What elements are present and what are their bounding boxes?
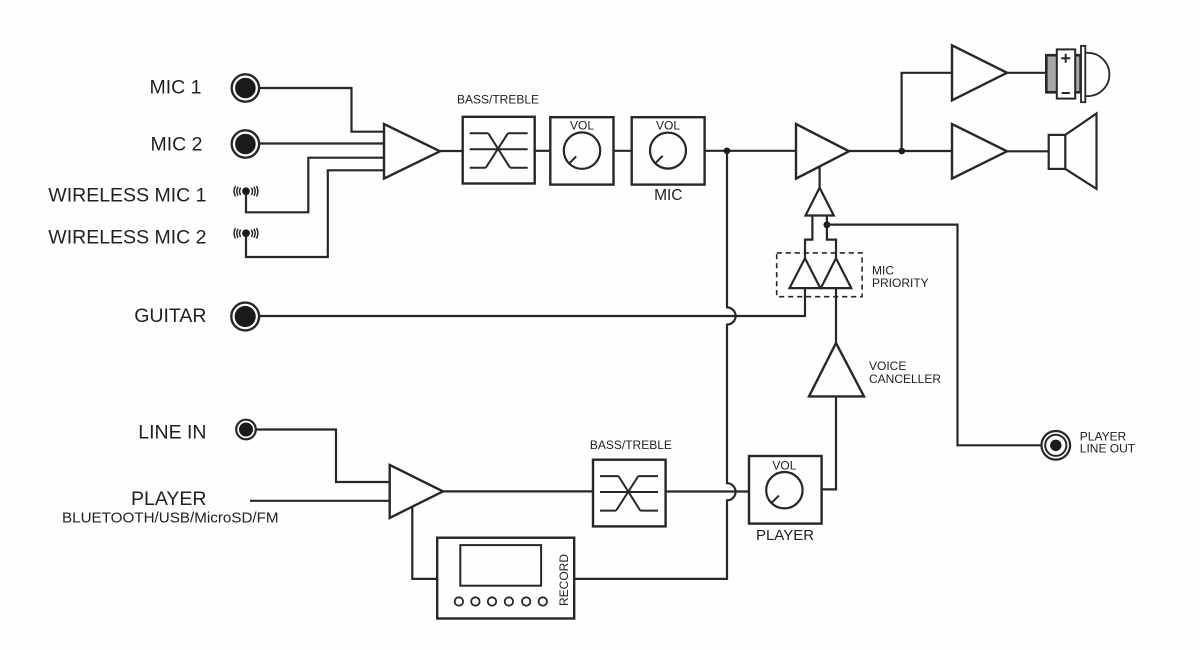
label MIC PRIORITY — [872, 264, 929, 290]
wire WM1 to preamp — [246, 158, 384, 213]
wire vol2 to main amp — [705, 150, 796, 152]
buffer mic priority left triangle — [790, 258, 821, 288]
svg-text:PLAYER: PLAYER — [756, 527, 814, 544]
svg-text:PRIORITY: PRIORITY — [872, 276, 929, 290]
label PLAYER LINE OUT — [1080, 429, 1136, 455]
svg-text:GUITAR: GUITAR — [134, 305, 206, 327]
wire mic priority merge right — [827, 216, 836, 259]
svg-text:MIC 2: MIC 2 — [150, 134, 202, 156]
wire tweeter amp to horn — [1006, 72, 1046, 74]
wire MIC2 to preamp — [259, 142, 384, 144]
wire player amp tap to record — [412, 507, 437, 579]
wire player to player amp — [250, 500, 390, 502]
svg-text:VOL: VOL — [570, 118, 594, 132]
wire woofer amp to speaker — [1006, 150, 1049, 152]
svg-text:BASS/TREBLE: BASS/TREBLE — [457, 93, 539, 107]
wire main amp to feedback triangle — [818, 166, 820, 187]
wire WM2 to preamp — [246, 170, 384, 257]
speaker horn tweeter — [1046, 46, 1109, 102]
svg-text:RECORD: RECORD — [557, 554, 571, 606]
wire vol1 to vol2 — [614, 150, 632, 152]
wire guitar to mic priority — [259, 288, 805, 316]
wire voice canceller to player vol — [822, 396, 836, 489]
antenna WIRELESS MIC 2 — [234, 228, 258, 238]
svg-text:PLAYER: PLAYER — [131, 488, 207, 510]
svg-text:CANCELLER: CANCELLER — [869, 372, 941, 386]
wire line in to player amp — [256, 430, 390, 483]
svg-text:MIC 1: MIC 1 — [149, 76, 201, 98]
jack MIC 2 — [232, 130, 259, 157]
wire mic bus down to record (with hops) — [574, 152, 735, 579]
node output junction — [899, 148, 906, 155]
block BASS/TREBLE player — [593, 460, 666, 527]
wire mic priority right to voice canceller — [835, 288, 837, 343]
node mic priority tap — [824, 221, 831, 228]
wire main amp to speaker amps — [848, 150, 952, 152]
op-amp main power amp — [796, 124, 849, 179]
block BASS/TREBLE mic — [463, 117, 535, 184]
label VOICE CANCELLER — [869, 359, 941, 386]
block RECORD — [437, 538, 574, 619]
wire player amp to bass/treble2 — [442, 490, 593, 492]
op-amp mic preamp — [384, 124, 440, 179]
op-amp player preamp — [390, 465, 443, 518]
antenna WIRELESS MIC 1 — [234, 186, 258, 196]
wire bass/treble2 to player vol — [666, 490, 749, 492]
svg-text:VOICE: VOICE — [869, 359, 906, 373]
jack LINE IN — [236, 420, 256, 440]
svg-text:MIC: MIC — [654, 187, 682, 204]
wire bass/treble to vol1 — [535, 150, 551, 152]
svg-text:BLUETOOTH/USB/MicroSD/FM: BLUETOOTH/USB/MicroSD/FM — [62, 509, 279, 526]
wire tap to player line out — [827, 225, 1041, 446]
node mic bus junction — [724, 148, 731, 155]
op-amp tweeter amp — [952, 45, 1007, 100]
op-amp voice canceller — [809, 343, 864, 396]
buffer mic priority right triangle — [821, 258, 852, 288]
svg-text:BASS/TREBLE: BASS/TREBLE — [590, 438, 672, 452]
wire junction up to tweeter amp — [902, 73, 952, 151]
block MIC PRIORITY dashed box — [777, 253, 862, 297]
jack MIC 1 — [232, 74, 259, 101]
jack GUITAR — [231, 303, 259, 331]
speaker woofer — [1049, 114, 1097, 189]
svg-text:WIRELESS MIC 1: WIRELESS MIC 1 — [48, 185, 206, 207]
jack PLAYER LINE OUT — [1042, 431, 1071, 460]
svg-text:LINE IN: LINE IN — [138, 421, 206, 443]
svg-text:WIRELESS MIC 2: WIRELESS MIC 2 — [48, 227, 206, 249]
wire preamp to bass/treble — [439, 150, 463, 152]
svg-text:VOL: VOL — [772, 458, 796, 472]
svg-text:VOL: VOL — [656, 118, 680, 132]
block VOL mic1 — [550, 117, 613, 184]
wire MIC1 to preamp — [259, 88, 384, 132]
buffer feedback triangle — [806, 188, 834, 216]
block VOL player — [749, 456, 822, 524]
svg-text:LINE OUT: LINE OUT — [1080, 442, 1136, 456]
block VOL mic2 (MIC) — [632, 117, 705, 184]
op-amp woofer amp — [952, 124, 1007, 179]
wire mic priority merge left — [805, 216, 812, 259]
